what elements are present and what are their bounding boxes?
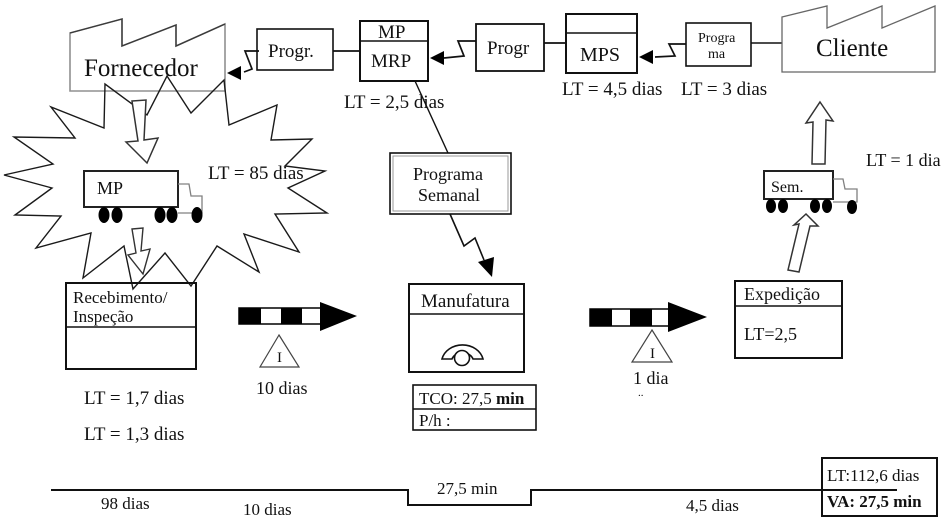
process box Recebimento/Inspecao [66, 283, 196, 369]
svg-text:Expedição: Expedição [744, 284, 820, 304]
svg-text:Cliente: Cliente [816, 35, 888, 62]
svg-text:4,5 dias: 4,5 dias [686, 496, 739, 515]
process box Expedicao [735, 281, 842, 358]
box Progr. [257, 29, 333, 70]
svg-text:Inspeção: Inspeção [73, 307, 133, 326]
svg-text:MP: MP [97, 178, 123, 198]
svg-text:Semanal: Semanal [418, 185, 480, 205]
svg-text:I: I [277, 350, 282, 366]
svg-text:1 dia: 1 dia [633, 368, 669, 388]
wire Progr. to Fornecedor (zigzag info arrow) [227, 51, 259, 80]
svg-text:Progr: Progr [487, 38, 530, 59]
data box TCO / P/h [413, 385, 536, 430]
push arrow 1 [239, 302, 357, 331]
wire Progr(2) to MPS [544, 42, 566, 44]
hollow down arrow factory to truck [126, 100, 158, 163]
svg-text:P/h :: P/h : [419, 411, 451, 430]
svg-text:Fornecedor: Fornecedor [84, 55, 199, 82]
svg-text:ma: ma [708, 47, 726, 62]
hollow up arrow truck to Cliente [806, 102, 833, 164]
svg-text:MRP: MRP [371, 51, 411, 72]
inventory triangle I (1 dia) [632, 330, 672, 362]
box Progr (2) [476, 24, 544, 71]
factory Fornecedor [70, 19, 225, 91]
svg-text:LT:112,6 dias: LT:112,6 dias [827, 466, 919, 485]
svg-text:TCO: 27,5 min: TCO: 27,5 min [419, 389, 525, 408]
svg-text:MPS: MPS [580, 44, 620, 66]
svg-text:LT = 1 dia: LT = 1 dia [866, 150, 941, 170]
factory Cliente [782, 6, 935, 72]
inventory triangle I (10 dias) [260, 335, 299, 367]
hollow up arrow Expedicao to truck [788, 214, 818, 272]
kaizen burst LT = 85 dias [4, 76, 327, 289]
svg-text:27,5 min: 27,5 min [437, 479, 498, 498]
svg-text:VA: 27,5 min: VA: 27,5 min [827, 492, 922, 511]
svg-text:Programa: Programa [413, 164, 483, 184]
box Programa Semanal [390, 153, 511, 214]
svg-text:LT = 3 dias: LT = 3 dias [681, 79, 767, 100]
svg-text:..: .. [638, 387, 644, 399]
wire Progr. to MP/MRP [333, 50, 360, 52]
svg-text:MP: MP [378, 22, 405, 43]
push arrow 2 [590, 302, 707, 332]
wire Programa to Cliente [751, 42, 782, 44]
svg-text:LT = 1,3 dias: LT = 1,3 dias [84, 424, 184, 445]
wire Programa Semanal to Manufatura (zigzag arrow) [450, 214, 494, 277]
process box Manufatura [409, 284, 524, 372]
hollow down arrow truck to Recebimento [128, 228, 150, 274]
operator icon inside Manufatura [442, 345, 483, 366]
svg-text:LT=2,5: LT=2,5 [744, 324, 797, 344]
svg-text:I: I [650, 346, 655, 362]
svg-text:98 dias: 98 dias [101, 494, 150, 513]
truck MP [84, 171, 203, 223]
svg-text:10 dias: 10 dias [243, 500, 292, 519]
totals box LT/VA [822, 458, 937, 516]
svg-text:Progr.: Progr. [268, 41, 314, 62]
box MP / MRP [360, 21, 428, 81]
truck Sem. [764, 171, 857, 214]
wire Progr(2) to MRP (zigzag info arrow) [430, 41, 476, 65]
svg-text:Manufatura: Manufatura [421, 291, 510, 312]
box Programa [686, 23, 751, 66]
svg-text:LT = 4,5 dias: LT = 4,5 dias [562, 79, 662, 100]
svg-text:LT = 2,5 dias: LT = 2,5 dias [344, 92, 444, 113]
wire MRP to Programa Semanal (diagonal) [415, 81, 448, 153]
svg-text:LT = 85 dias: LT = 85 dias [208, 163, 304, 184]
box MPS [566, 14, 637, 73]
timeline [51, 490, 897, 505]
svg-text:Recebimento/: Recebimento/ [73, 288, 168, 307]
wire Programa to MPS (zigzag info arrow) [639, 44, 686, 64]
svg-text:Progra: Progra [698, 31, 736, 46]
svg-text:10 dias: 10 dias [256, 378, 308, 398]
svg-text:Sem.: Sem. [771, 179, 803, 196]
svg-text:LT = 1,7 dias: LT = 1,7 dias [84, 388, 184, 409]
